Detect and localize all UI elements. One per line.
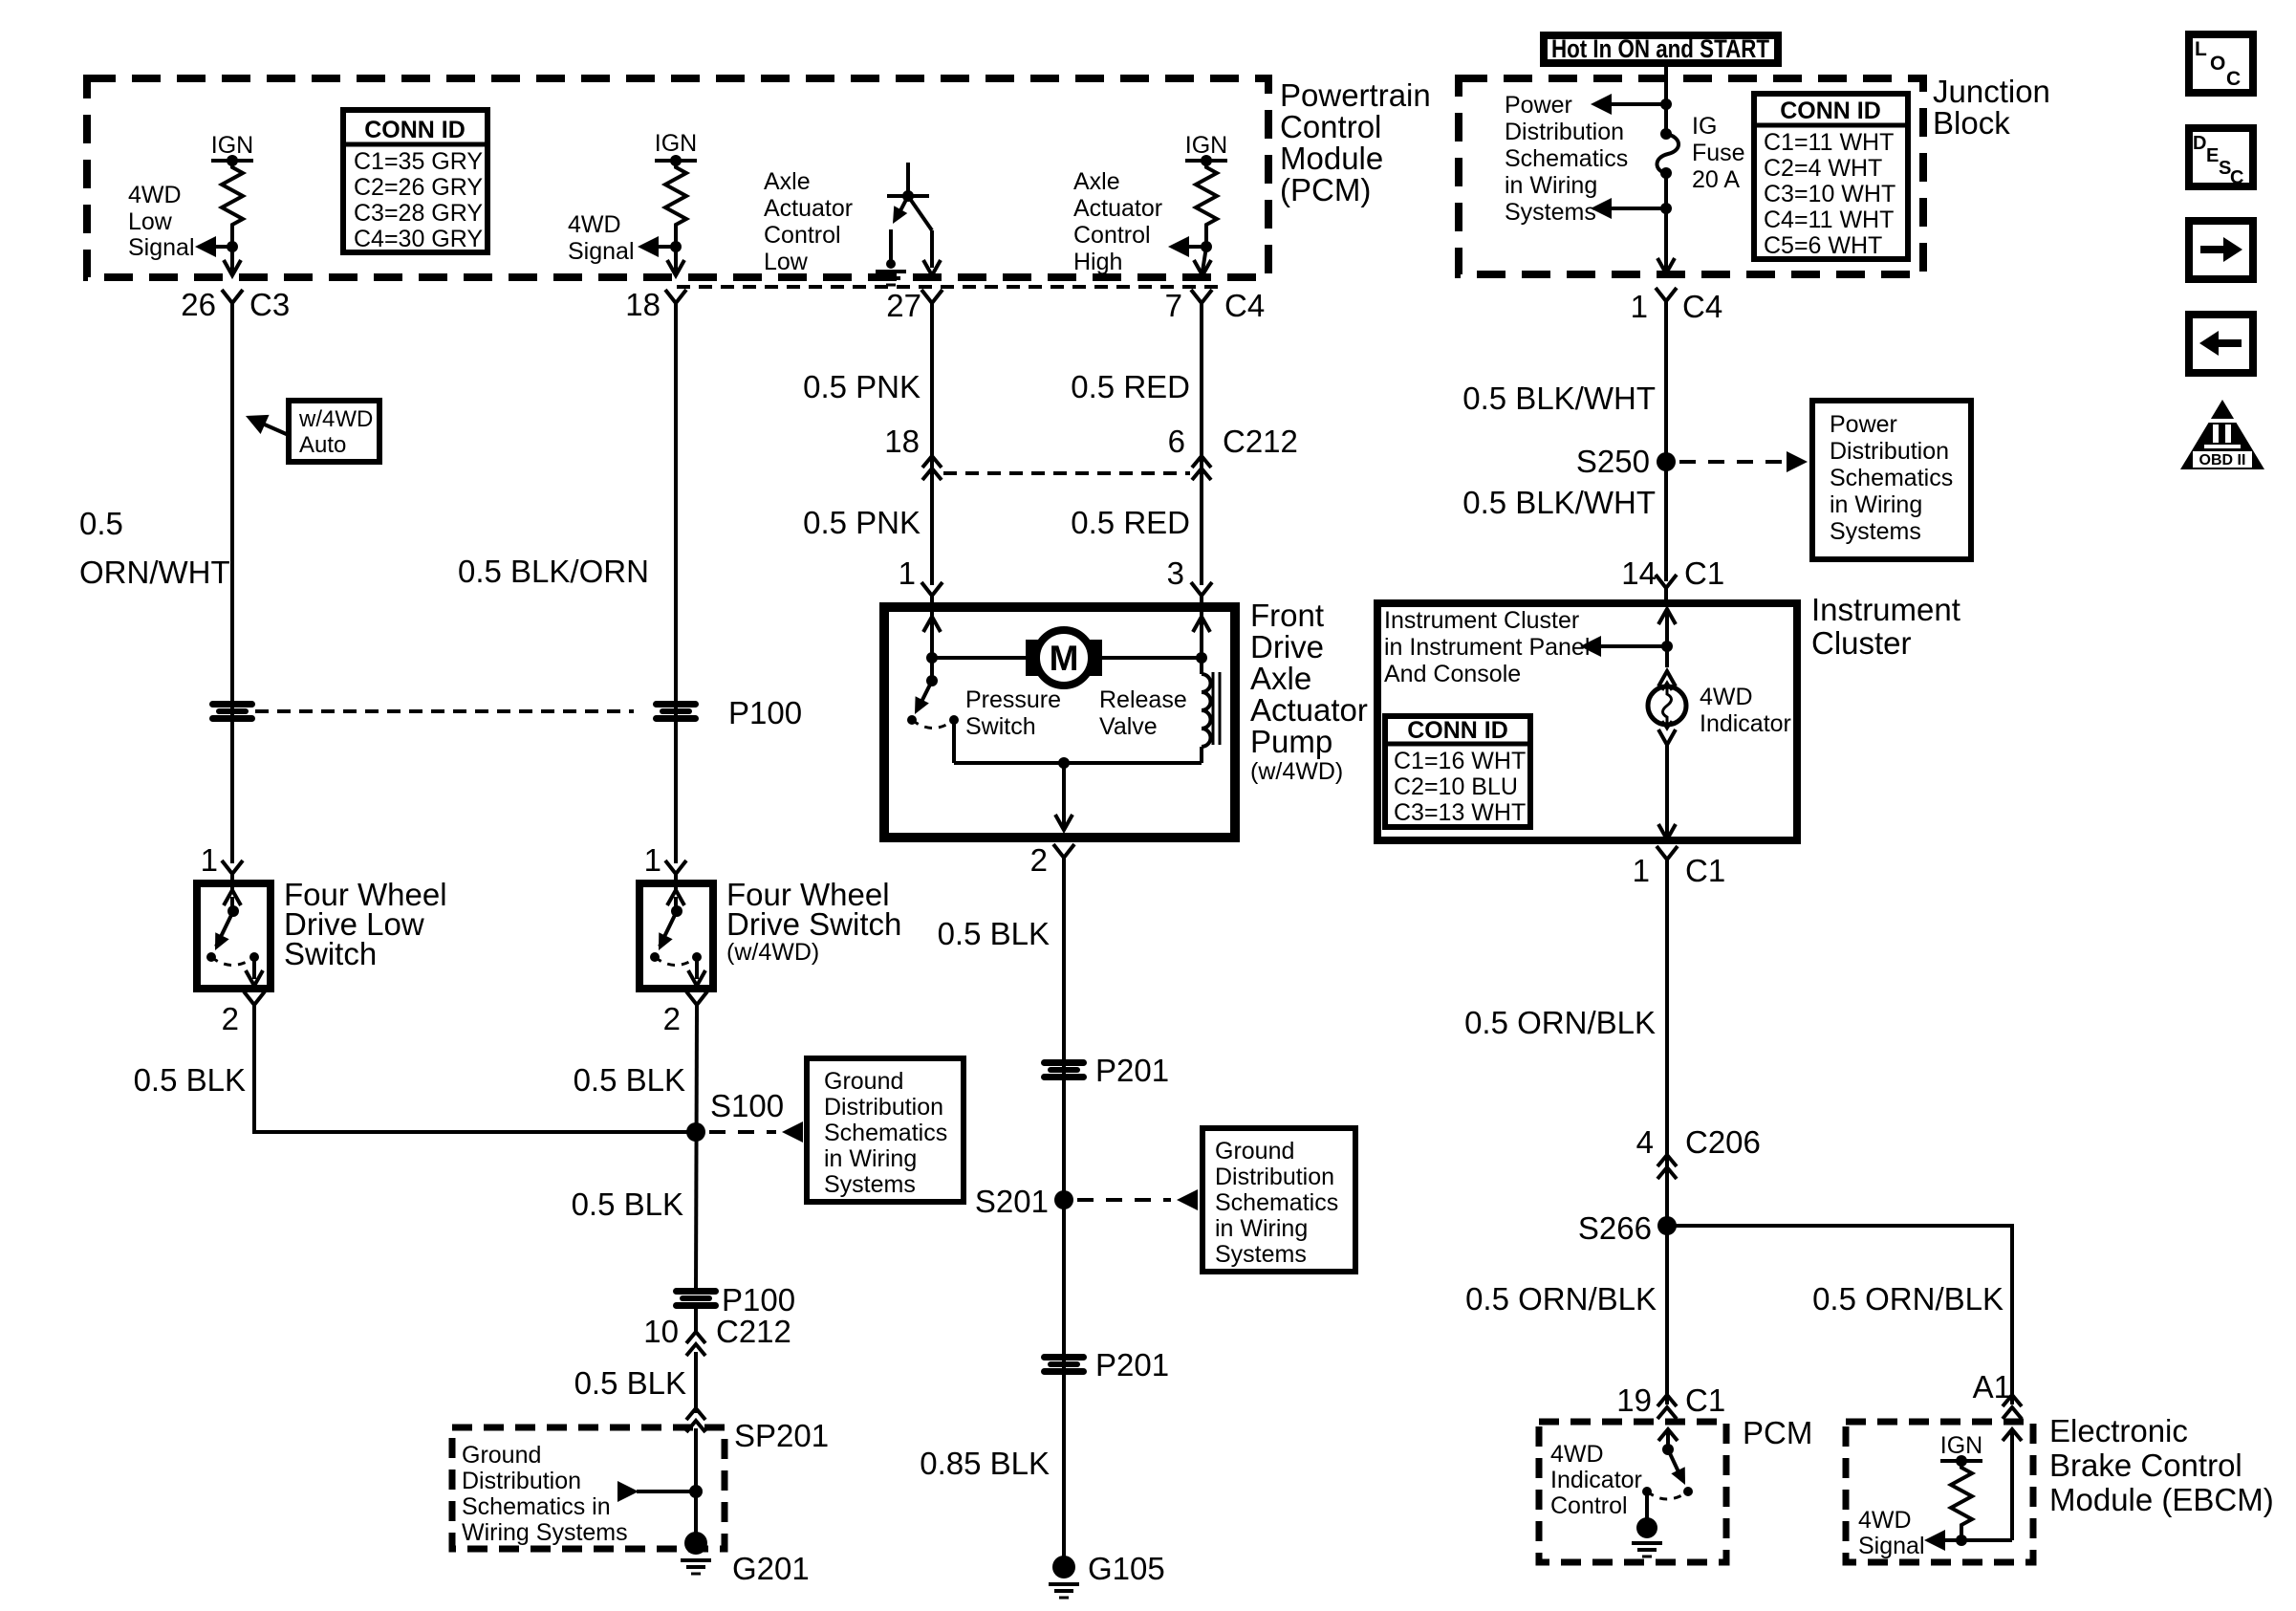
wire 0.5 BLK: switch 2 pin 2 through S100 to P100 [696, 1012, 697, 1291]
svg-text:in Wiring: in Wiring [1830, 491, 1922, 518]
EBCM dashed box [1846, 1422, 2033, 1562]
wire to motor right [1102, 656, 1202, 660]
ground G201 [684, 1532, 707, 1555]
grommet on ORN/WHT wire [209, 701, 255, 722]
w/4WD Auto tag box with arrow [242, 401, 379, 462]
svg-text:D: D [2193, 133, 2206, 154]
svg-text:C212: C212 [716, 1314, 791, 1349]
branch wire to power distribution (lower) [1612, 207, 1666, 210]
wire to PCM internal ground [1645, 1491, 1649, 1520]
wire: hot feed into junction block [1664, 63, 1668, 134]
svg-text:Systems: Systems [1505, 199, 1596, 226]
svg-text:1: 1 [201, 842, 218, 878]
right arrow icon [2189, 221, 2253, 279]
svg-text:1: 1 [644, 842, 661, 878]
ground G105 [1052, 1556, 1075, 1578]
motor M circle [1036, 630, 1092, 686]
arm to ground [897, 196, 908, 218]
svg-text:C2=4 WHT: C2=4 WHT [1764, 155, 1882, 182]
svg-text:Systems: Systems [1830, 518, 1921, 545]
cluster wire to pin 1 [1665, 745, 1669, 836]
solenoid core bar 1 [1212, 672, 1215, 745]
svg-text:26: 26 [181, 287, 216, 322]
EBCM internals: IGN resistor and 4WD Signal [1858, 1428, 2022, 1559]
arm to pin 27 [908, 196, 932, 230]
fuse IG Fuse 20 A [1657, 113, 1745, 193]
svg-text:0.5 BLK: 0.5 BLK [574, 1062, 685, 1098]
svg-text:Power: Power [1505, 92, 1572, 119]
exit arrow pump pin 2 [1055, 815, 1072, 830]
resistor (4WD Signal pull-up) [665, 161, 686, 231]
svg-text:Low: Low [764, 249, 809, 275]
connector 4 C206 [1636, 1124, 1761, 1179]
svg-text:Module: Module [1280, 141, 1383, 176]
exit arrow at junction block bottom [1657, 258, 1675, 273]
cluster internal wire [1665, 609, 1669, 667]
svg-text:C4=11 WHT: C4=11 WHT [1764, 207, 1894, 233]
svg-text:S266: S266 [1578, 1210, 1652, 1246]
PCM switch throw arc [1647, 1491, 1688, 1499]
wire down to pin 18 [674, 247, 678, 272]
svg-text:in Wiring: in Wiring [1505, 172, 1597, 199]
Four Wheel Drive Low Switch box [197, 883, 271, 989]
svg-text:Schematics: Schematics [824, 1120, 947, 1146]
CONN ID table (cluster) [1385, 716, 1530, 827]
svg-text:7: 7 [1165, 288, 1182, 323]
svg-text:Distribution: Distribution [1830, 438, 1949, 465]
svg-text:Brake Control: Brake Control [2049, 1448, 2242, 1483]
connector C212 tie dashed line [943, 471, 1190, 475]
connector symbol C212 pin 18 [922, 456, 942, 480]
svg-text:Distribution: Distribution [1505, 119, 1624, 145]
svg-text:0.5 BLK/ORN: 0.5 BLK/ORN [458, 554, 649, 589]
svg-text:E: E [2206, 145, 2219, 166]
splice S266 [1657, 1216, 1677, 1235]
pump pin 2 [1030, 842, 1074, 878]
svg-text:Switch: Switch [284, 936, 377, 971]
wire to motor left [932, 656, 1026, 660]
splice S100 [686, 1122, 705, 1142]
pin 18 [625, 287, 686, 322]
pin 1 into Four Wheel Drive Switch [644, 842, 686, 891]
fuse element IG Fuse 20 A [1657, 134, 1679, 173]
svg-text:IGN: IGN [211, 132, 253, 159]
arrowhead to power distribution (upper) [1591, 94, 1612, 115]
svg-text:C: C [2230, 167, 2243, 188]
svg-text:3: 3 [1167, 555, 1184, 591]
svg-text:Schematics: Schematics [1215, 1189, 1338, 1216]
SP201 internal reference arrow [689, 1485, 703, 1498]
svg-text:Systems: Systems [824, 1171, 916, 1198]
svg-text:w/4WD: w/4WD [298, 406, 373, 432]
svg-text:0.5 BLK: 0.5 BLK [938, 916, 1050, 951]
resistor (4WD Low Signal pull-up) [222, 161, 243, 231]
svg-text:0.5 ORN/BLK: 0.5 ORN/BLK [1464, 1005, 1656, 1040]
wire into release valve coil [1200, 658, 1203, 674]
pressure switch contact right [949, 715, 959, 725]
IGN node dot (EBCM) [1956, 1455, 1967, 1467]
svg-text:14: 14 [1621, 555, 1657, 591]
wire 0.5 BLK/ORN: PCM pin 18 to switch pin 1 [674, 301, 678, 863]
svg-text:Fuse: Fuse [1692, 140, 1745, 166]
svg-text:1: 1 [899, 555, 916, 591]
grommet P100 on BLK/ORN wire [653, 701, 699, 722]
wire: SP201 to ground G201 [694, 1428, 698, 1541]
svg-text:Ground: Ground [824, 1068, 903, 1095]
S250 reference dashed arrow [1679, 460, 1786, 464]
svg-text:Pump: Pump [1250, 724, 1332, 759]
ground (internal) [876, 272, 906, 285]
SP201 dashed box [452, 1427, 725, 1549]
CONN ID table (junction block) [1754, 94, 1908, 259]
Powertrain Control Module (PCM) dashed box [87, 78, 1268, 277]
svg-text:Drive: Drive [1250, 629, 1324, 664]
svg-text:CONN ID: CONN ID [1407, 717, 1508, 744]
wire down to pin 26 [230, 247, 234, 272]
PCM switch contact right [1683, 1487, 1693, 1496]
pressure switch arm [918, 681, 932, 709]
wire 0.5 ORN/BLK: cluster pin 1 to PCM pin 19 [1665, 861, 1669, 1404]
Instrument Cluster box [1377, 603, 1797, 840]
svg-text:Pressure: Pressure [965, 686, 1061, 713]
svg-text:0.5 BLK: 0.5 BLK [574, 1365, 686, 1401]
svg-text:S100: S100 [710, 1088, 784, 1123]
svg-text:Axle: Axle [764, 168, 811, 195]
wire 0.5/0.85 BLK: pump pin 2 to ground G105 [1062, 862, 1066, 1557]
svg-text:And Console: And Console [1384, 661, 1521, 687]
svg-text:Low: Low [128, 208, 173, 235]
svg-text:0.85 BLK: 0.85 BLK [920, 1446, 1050, 1481]
left arrow icon [2189, 315, 2253, 373]
PCM entry chevron [1658, 1429, 1678, 1441]
svg-text:0.5 BLK: 0.5 BLK [134, 1062, 246, 1098]
IGN rail bar (EBCM) [1940, 1459, 1982, 1463]
svg-text:0.5 PNK: 0.5 PNK [803, 369, 921, 404]
svg-text:C4: C4 [1682, 289, 1722, 324]
pump internals [907, 612, 1220, 830]
svg-text:Front: Front [1250, 598, 1324, 633]
svg-text:Signal: Signal [568, 238, 635, 265]
svg-text:Electronic: Electronic [2049, 1413, 2188, 1448]
svg-text:19: 19 [1616, 1382, 1652, 1418]
wire 0.5 RED: PCM pin 7 to pump pin 3 [1200, 301, 1203, 585]
svg-text:C4: C4 [1224, 288, 1265, 323]
Front Drive Axle Actuator Pump box [884, 607, 1235, 838]
svg-text:S201: S201 [975, 1184, 1049, 1219]
connector symbol pin 26 [222, 290, 243, 320]
svg-text:Schematics in: Schematics in [462, 1493, 611, 1520]
grommet P100 (lower) [673, 1288, 719, 1309]
svg-text:P100: P100 [722, 1282, 795, 1317]
svg-text:C1: C1 [1685, 1382, 1725, 1418]
svg-text:Control: Control [1073, 222, 1151, 249]
svg-text:0.5 RED: 0.5 RED [1071, 505, 1190, 540]
pin 27 [886, 288, 942, 323]
connector 19 C1 (PCM) [1616, 1382, 1725, 1419]
svg-text:0.5 PNK: 0.5 PNK [803, 505, 921, 540]
svg-text:G105: G105 [1088, 1551, 1165, 1586]
svg-text:C3: C3 [249, 287, 290, 322]
lamp filament [1663, 686, 1672, 727]
svg-text:Signal: Signal [128, 234, 195, 261]
svg-text:4WD: 4WD [568, 211, 621, 238]
svg-text:Control: Control [764, 222, 841, 249]
svg-text:C3=13 WHT: C3=13 WHT [1394, 799, 1526, 826]
PCM switch pivot node [1662, 1444, 1674, 1455]
svg-text:1: 1 [1631, 289, 1648, 324]
svg-text:A1: A1 [1973, 1369, 2011, 1404]
svg-text:18: 18 [884, 424, 920, 459]
connector symbol pin 27 [921, 290, 942, 320]
4WD Signal wire (EBCM) [1941, 1538, 2012, 1542]
svg-text:IG: IG [1692, 113, 1717, 140]
pin 2 below switch 1 [222, 991, 265, 1036]
pin 1 connector C1 (cluster bottom) [1633, 846, 1726, 888]
svg-text:Release: Release [1099, 686, 1187, 713]
PCM switch feed wire [1666, 1428, 1670, 1449]
svg-text:C212: C212 [1223, 424, 1298, 459]
svg-text:CONN ID: CONN ID [1780, 98, 1881, 124]
svg-text:6: 6 [1168, 424, 1185, 459]
svg-text:Axle: Axle [1250, 661, 1311, 696]
resistor (Axle Actuator Control High) [1196, 161, 1217, 231]
4WD Signal arrowhead (EBCM) [1924, 1530, 1945, 1551]
pin 14 connector C1 (cluster) [1621, 555, 1724, 605]
wire 0.5 ORN/WHT: PCM pin 26 to switch pin 1 [230, 301, 234, 863]
svg-text:C3=28 GRY: C3=28 GRY [354, 200, 483, 227]
svg-text:C1=35 GRY: C1=35 GRY [354, 148, 483, 175]
svg-text:Actuator: Actuator [1073, 195, 1162, 222]
arrowhead to power distribution (lower) [1591, 198, 1612, 219]
svg-text:Control: Control [1280, 109, 1381, 144]
connector symbol C212 pin 6 [1192, 456, 1211, 480]
svg-text:Indicator: Indicator [1700, 710, 1791, 737]
svg-text:Power: Power [1830, 411, 1897, 438]
Hot In ON and START box [1544, 34, 1778, 63]
svg-text:Powertrain: Powertrain [1280, 77, 1431, 113]
svg-text:Ground: Ground [1215, 1138, 1294, 1165]
svg-text:PCM: PCM [1743, 1415, 1812, 1450]
svg-text:C4=30 GRY: C4=30 GRY [354, 226, 483, 252]
svg-text:Systems: Systems [1215, 1241, 1307, 1268]
PCM dashed box (bottom) [1539, 1422, 1726, 1562]
node: motor left terminal [926, 652, 938, 664]
motor M body [1026, 640, 1102, 676]
DESC icon [2189, 128, 2253, 188]
wire from pressure switch contact [952, 720, 956, 763]
wire 0.5 BLK: switch 1 pin 2 to S100 [254, 1012, 696, 1132]
connector symbol pin 7 [1191, 290, 1212, 320]
svg-text:Cluster: Cluster [1811, 625, 1912, 661]
svg-text:0.5 RED: 0.5 RED [1071, 369, 1190, 404]
svg-text:IGN: IGN [655, 130, 697, 157]
svg-text:0.5 ORN/BLK: 0.5 ORN/BLK [1812, 1281, 2004, 1317]
svg-text:OBD II: OBD II [2199, 452, 2246, 468]
svg-text:L: L [2195, 38, 2207, 60]
pump pin 1 [899, 555, 942, 613]
svg-text:Schematics: Schematics [1505, 145, 1628, 172]
pin 1 connector C4 (junction block) [1631, 288, 1723, 324]
pin 26 connector C3 [181, 287, 290, 322]
wire down to pin 7 [1202, 247, 1206, 272]
pressure switch contact left [907, 715, 917, 725]
OBD II icon [2180, 400, 2264, 469]
svg-text:in Wiring: in Wiring [1215, 1215, 1308, 1242]
cluster entry arrow pin 14 [1658, 609, 1676, 624]
Axle Actuator Control High arrow [1185, 245, 1206, 249]
svg-text:IGN: IGN [1185, 132, 1227, 159]
release valve solenoid coil [1202, 674, 1211, 747]
svg-text:C5=6 WHT: C5=6 WHT [1764, 232, 1882, 259]
svg-text:10: 10 [643, 1314, 679, 1349]
svg-text:2: 2 [663, 1001, 681, 1036]
svg-text:Module (EBCM): Module (EBCM) [2049, 1482, 2274, 1517]
connector C4 face dashed line (pins 18/27/7) [677, 285, 1220, 289]
fuse bottom terminal node [1660, 167, 1672, 179]
lamp terminal lower [1658, 729, 1676, 745]
svg-text:in Instrument Panel: in Instrument Panel [1384, 634, 1590, 661]
svg-text:0.5: 0.5 [79, 506, 123, 541]
solenoid core bar 2 [1219, 672, 1222, 745]
svg-text:C1=11 WHT: C1=11 WHT [1764, 129, 1894, 156]
svg-text:2: 2 [1030, 842, 1048, 878]
ground inside PCM [1636, 1517, 1657, 1538]
pin 7 connector C4 [1165, 288, 1266, 323]
splice S201 [1054, 1190, 1073, 1209]
pressure switch pivot node [926, 675, 938, 686]
svg-text:Ground: Ground [462, 1442, 541, 1469]
svg-text:C2=10 BLU: C2=10 BLU [1394, 773, 1518, 800]
pump pin 3 [1167, 555, 1212, 613]
wire: fuse output down to pin 1 C4 [1664, 173, 1668, 270]
pin 1 into Four Wheel Drive Low Switch [201, 842, 243, 891]
wire to pump pin 2 [1062, 763, 1066, 826]
svg-text:Indicator: Indicator [1550, 1467, 1642, 1493]
svg-text:O: O [2210, 53, 2225, 75]
svg-text:Switch: Switch [965, 713, 1036, 740]
svg-text:P201: P201 [1095, 1053, 1169, 1088]
4WD Indicator Control switch [1550, 1428, 1693, 1557]
svg-text:4WD: 4WD [1550, 1441, 1604, 1468]
svg-text:Instrument: Instrument [1811, 592, 1960, 627]
CONN ID table (PCM) [343, 110, 487, 252]
EBCM entry chevron [2003, 1429, 2022, 1441]
svg-text:C1=16 WHT: C1=16 WHT [1394, 748, 1526, 774]
svg-text:Distribution: Distribution [462, 1468, 581, 1494]
grommet P201 (lower) [1041, 1354, 1087, 1375]
cluster internal reference wire [1597, 644, 1667, 648]
svg-text:Schematics: Schematics [1830, 465, 1953, 491]
fuse top terminal node [1660, 128, 1672, 140]
svg-text:Auto: Auto [299, 432, 346, 458]
junction node (upper feed) [1660, 98, 1672, 110]
svg-text:S250: S250 [1576, 444, 1650, 479]
svg-text:Valve: Valve [1099, 713, 1158, 740]
connector C212 pins 18 / 6 [884, 424, 1298, 480]
EBCM internal wire from A1 [2010, 1428, 2014, 1540]
svg-text:4WD: 4WD [1700, 684, 1753, 710]
wire 0.5 PNK: PCM pin 27 to pump pin 1 [930, 301, 934, 585]
4WD Low Signal arrow [212, 245, 232, 249]
connector 10 C212 [643, 1306, 791, 1413]
grommet P201 (upper) [1041, 1059, 1087, 1080]
node: cluster internal tap [1661, 641, 1673, 652]
connector symbol pin 18 [665, 290, 686, 320]
resistor 4WD Signal pull-up (EBCM) [1951, 1461, 1972, 1532]
pressure switch throw arc [912, 720, 954, 729]
S100 reference dashed arrow [709, 1130, 776, 1134]
4WD Indicator lamp circle [1648, 686, 1686, 725]
pressure switch feed [930, 658, 934, 681]
Junction Block dashed box [1459, 78, 1923, 274]
svg-text:0.5 BLK/WHT: 0.5 BLK/WHT [1462, 381, 1656, 416]
svg-text:CONN ID: CONN ID [364, 117, 466, 143]
splice pack SP201 entry chevrons [686, 1408, 705, 1432]
svg-text:Distribution: Distribution [1215, 1164, 1334, 1190]
pin 2 below switch 2 [663, 991, 707, 1036]
svg-text:C1: C1 [1685, 853, 1725, 888]
svg-text:4: 4 [1636, 1124, 1654, 1160]
svg-text:2: 2 [222, 1001, 239, 1036]
svg-text:1: 1 [1633, 853, 1650, 888]
S201 reference dashed arrow [1077, 1198, 1171, 1202]
svg-text:C206: C206 [1685, 1124, 1761, 1160]
svg-text:Actuator: Actuator [764, 195, 853, 222]
Ground Distribution Schematics in Wiring Systems box (S201) [1202, 1128, 1355, 1272]
svg-text:27: 27 [886, 288, 921, 323]
Axle Actuator Control Low driver (tri-state with ground) [764, 163, 941, 285]
node: 4WD Signal tap (EBCM) [1956, 1535, 1967, 1546]
wire 0.5 BLK/WHT: junction block to instrument cluster [1664, 299, 1668, 581]
svg-text:(w/4WD): (w/4WD) [1250, 758, 1343, 785]
PCM switch contact left [1642, 1487, 1652, 1496]
splice S250 [1657, 452, 1676, 471]
svg-text:(w/4WD): (w/4WD) [726, 939, 819, 966]
svg-text:4WD: 4WD [128, 182, 182, 208]
svg-text:0.5 ORN/BLK: 0.5 ORN/BLK [1465, 1281, 1657, 1317]
connector A1 (EBCM) [1973, 1369, 2022, 1419]
entry arrow pump pin 3 [1193, 617, 1210, 632]
svg-text:ORN/WHT: ORN/WHT [79, 555, 230, 590]
svg-text:Block: Block [1933, 105, 2010, 141]
PCM switch arm [1668, 1449, 1682, 1480]
cluster internal reference arrowhead [1580, 636, 1601, 657]
svg-text:P201: P201 [1095, 1347, 1169, 1382]
svg-text:Axle: Axle [1073, 168, 1120, 195]
svg-text:Junction: Junction [1933, 74, 2050, 109]
node: pump pin 2 junction [1058, 757, 1070, 769]
svg-text:18: 18 [625, 287, 661, 322]
svg-text:C3=10 WHT: C3=10 WHT [1764, 181, 1895, 207]
junction node (lower feed) [1660, 203, 1672, 214]
Power Distribution Schematics in Wiring Systems box (S250) [1812, 401, 1971, 559]
svg-text:M: M [1050, 639, 1079, 678]
cluster internals [1384, 607, 1791, 839]
svg-text:High: High [1073, 249, 1122, 275]
node IGN (second, 4WD Signal driver) [568, 130, 697, 275]
svg-text:in Wiring: in Wiring [824, 1145, 917, 1172]
svg-text:0.5 BLK: 0.5 BLK [572, 1186, 683, 1222]
svg-text:Control: Control [1550, 1492, 1628, 1519]
wire 0.5 ORN/BLK: S266 to EBCM pin A1 [1667, 1226, 2012, 1404]
cluster exit arrow pin 1 [1658, 824, 1676, 839]
svg-text:SP201: SP201 [734, 1418, 829, 1453]
LOC icon [2189, 34, 2253, 93]
svg-text:Actuator: Actuator [1250, 692, 1368, 728]
svg-text:0.5 BLK/WHT: 0.5 BLK/WHT [1462, 485, 1656, 520]
node: motor right terminal [1196, 652, 1207, 664]
svg-text:4WD: 4WD [1858, 1507, 1912, 1534]
